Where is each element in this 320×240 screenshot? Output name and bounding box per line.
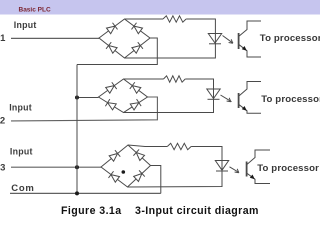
phototransistor Q3 base bar: [246, 162, 248, 177]
terminal 1: [0, 33, 6, 44]
diode BR2 upper-left: [105, 82, 116, 93]
wire BR1 top to resistor R1: [125, 18, 164, 20]
wire input 3 to BR3 left vertex: [11, 166, 101, 168]
svg-text:To processor: To processor: [257, 163, 319, 174]
LED D3: [215, 161, 228, 171]
wire BR3 top to resistor R3: [128, 145, 167, 147]
label To processor row 3: [257, 163, 319, 174]
svg-text:1: 1: [0, 33, 6, 44]
svg-text:Input: Input: [10, 146, 33, 156]
junction dot bus to BR2: [75, 96, 79, 100]
svg-text:To processor: To processor: [260, 33, 320, 44]
diode BR1 upper-left: [106, 23, 117, 35]
wire R3 to LED D3: [191, 147, 222, 172]
diode BR3 lower-left: [108, 171, 119, 183]
phototransistor Q3 collector: [247, 150, 270, 165]
phototransistor Q1 base bar: [238, 33, 240, 49]
phototransistor Q3 emitter: [247, 173, 270, 184]
bridge rectifier BR2 outline: [99, 79, 148, 113]
diode BR3 upper-right: [133, 149, 145, 161]
phototransistor Q1 collector: [239, 21, 261, 37]
wire BR1 right vertex to common bus: [77, 38, 157, 65]
svg-text:Basic PLC: Basic PLC: [19, 7, 51, 14]
diode BR2 lower-left: [105, 99, 116, 110]
svg-text:Input: Input: [14, 20, 37, 30]
phototransistor Q3 emitter arrowhead: [250, 175, 255, 180]
node Com label: [11, 183, 34, 194]
diode BR3 lower-right: [133, 170, 145, 182]
wire common bus to BR2 left vertex: [77, 97, 99, 99]
svg-text:3: 3: [0, 162, 5, 173]
junction dot Com bus: [75, 191, 79, 195]
resistor R3: [167, 143, 191, 149]
node Input 1 label: [14, 20, 37, 30]
bridge rectifier BR3 outline: [101, 145, 151, 187]
wire input 1: [11, 37, 99, 39]
svg-text:2: 2: [0, 115, 5, 126]
label To processor row 2: [261, 94, 320, 105]
optocoupler arrow row 1: [223, 36, 234, 44]
LED D1: [208, 34, 221, 44]
svg-text:Figure 3.1a 3-Input circuit: Figure 3.1a 3-Input circuit diagram: [61, 205, 259, 217]
slide header bar: [0, 0, 320, 15]
diode BR3 upper-left: [109, 150, 121, 162]
node Input 2 label: [9, 102, 32, 112]
svg-text:To processor: To processor: [261, 94, 320, 105]
wire BR2 top to resistor R2: [124, 78, 164, 80]
junction dot BR3 center: [122, 170, 126, 174]
wire LED D2 cathode return to BR2 bottom: [124, 99, 214, 112]
diode BR1 lower-left: [106, 42, 117, 54]
phototransistor Q2 emitter: [239, 104, 261, 113]
wire R2 to LED D2: [185, 79, 213, 99]
phototransistor Q2 base bar: [238, 93, 240, 108]
svg-text:Com: Com: [11, 183, 34, 194]
terminal 3: [0, 162, 5, 173]
wire Com: [10, 192, 161, 194]
diode BR1 upper-right: [131, 23, 142, 35]
resistor R2: [164, 76, 186, 82]
LED D2: [207, 89, 220, 99]
diode BR2 upper-right: [130, 82, 141, 94]
resistor R1: [163, 16, 186, 22]
label To processor row 1: [260, 33, 320, 44]
svg-text:Input: Input: [9, 102, 32, 112]
terminal 2: [0, 115, 5, 126]
common bus wire: [76, 65, 78, 194]
optocoupler arrow row 2: [221, 95, 232, 102]
wire LED D3 cathode return to BR3 bottom: [128, 171, 223, 187]
wire BR3 right vertex to Com line: [151, 166, 161, 194]
junction dot bus input 3: [75, 165, 79, 169]
bridge rectifier BR1 outline: [99, 19, 150, 58]
wire R1 to LED D1: [186, 19, 215, 44]
diode BR1 lower-right: [131, 42, 142, 54]
phototransistor Q2 collector: [239, 82, 261, 97]
optocoupler arrow row 3: [230, 167, 240, 173]
wire LED D1 cathode return to BR1 bottom: [125, 44, 216, 58]
phototransistor Q1 emitter arrowhead: [242, 46, 247, 51]
node Input 3 label: [10, 146, 33, 156]
phototransistor Q1 emitter: [239, 44, 261, 57]
wire input 2 to BR2 right vertex under-route: [11, 97, 157, 121]
diode BR2 lower-right: [130, 99, 141, 110]
phototransistor Q2 emitter arrowhead: [242, 106, 247, 111]
